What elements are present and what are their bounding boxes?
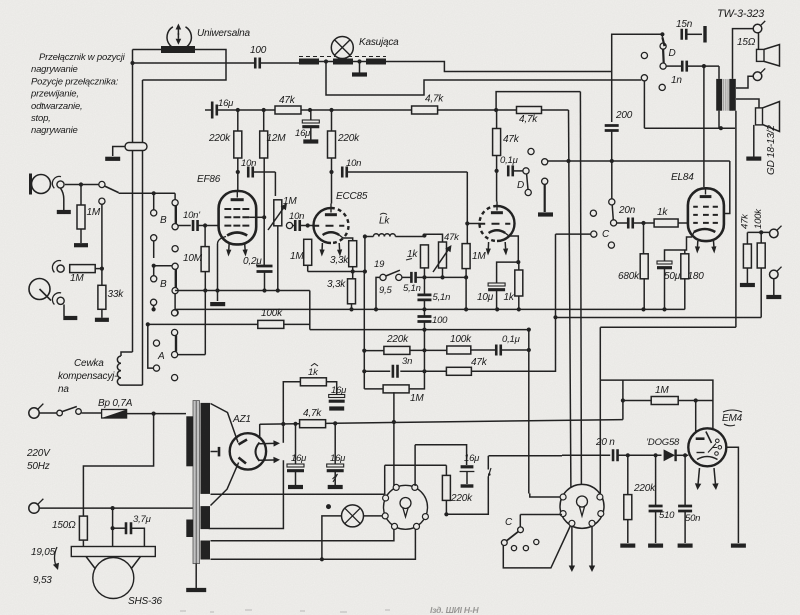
wire 10n right (254, 171, 276, 173)
wire speaker2 to ground (753, 125, 755, 157)
wire 220k motor top (445, 465, 447, 475)
wire box top line (548, 160, 730, 162)
wire junction to bracket (353, 271, 365, 273)
transformer mains right winding 3 (201, 541, 211, 560)
resistor 47k right (743, 244, 751, 268)
wire pot 47k bottom (442, 268, 444, 277)
capacitor 0,1u row (496, 345, 501, 356)
potentiometer 47k (439, 242, 447, 268)
capacitor 100 (255, 58, 260, 69)
wire C up (611, 161, 613, 199)
wire C left contacts (590, 210, 596, 216)
ground speaker (746, 157, 761, 161)
wire cap to erase head (261, 62, 300, 64)
wire 1k hat left (283, 382, 300, 424)
stray dot (326, 504, 331, 509)
wire EL84 anode (703, 66, 705, 187)
heater tap bar (218, 447, 221, 457)
wire EF86 screen down (331, 158, 333, 173)
wire 220k EM4 ground (627, 520, 629, 543)
wire left rail 2 (142, 80, 144, 143)
wire 100k to 0,1u (471, 349, 496, 351)
resistor 47k t2 anode (493, 129, 501, 156)
wire EL84 cathode net (665, 237, 693, 262)
resistor 1M gram (70, 265, 96, 273)
wire 220k up (237, 110, 239, 131)
wire primary bottom to bus (718, 111, 720, 129)
ground EF86 area (210, 302, 225, 306)
wire EM4 right side (726, 447, 738, 543)
wire coupling to pot (274, 172, 276, 196)
ground 16u screen (303, 139, 318, 143)
tube AZ1 envelope (230, 433, 266, 469)
tube EF86 cathode arc (227, 233, 247, 236)
wire C 234 line (556, 233, 591, 235)
capacitor 0,2u cathode (257, 266, 273, 272)
wire riser to rail B (496, 92, 580, 110)
resistor 1M mic (77, 205, 85, 229)
erase head winding 1 (299, 59, 319, 65)
wire B to 10n (178, 225, 191, 227)
wire pilot right to motor (364, 515, 383, 517)
switch B lower contacts (151, 235, 157, 241)
tube EL84 grids (693, 206, 718, 208)
capacitor 16u c1 (287, 464, 304, 467)
diode DOG58 (664, 449, 676, 461)
tube EL84 envelope (688, 188, 724, 241)
wire screen cap stub (310, 110, 312, 120)
wire 15n to terminal bar (687, 33, 702, 35)
resistor 100k right (757, 243, 765, 268)
junction anode coupling tap (236, 170, 240, 174)
tube EM4 arrows (698, 468, 699, 484)
wire 20n to diode (618, 454, 661, 456)
wire screen stub (249, 216, 264, 218)
tube t2 cathode (489, 230, 506, 233)
switch C arm contacts (518, 527, 524, 533)
wire 10M bottom through bus to switch A (204, 272, 206, 355)
wire head left to rail (133, 49, 162, 51)
wire x600 vertical (599, 327, 601, 494)
resistor 220k motor (442, 475, 450, 500)
wire 3,3k b to bus (351, 304, 353, 310)
wire 100k line right to drop (284, 323, 310, 325)
capacitor 5,1n shunt (417, 295, 431, 300)
wire between 4,7k (438, 109, 517, 111)
wire 12M down to screen (263, 158, 265, 266)
tube EM4 diagonal (706, 432, 712, 444)
junction riser to motor1 (392, 420, 396, 424)
wire node to pot top (424, 234, 442, 242)
resistor 220k EF86 anode (234, 131, 242, 158)
capacitor 20n EM4 (613, 449, 618, 461)
junction rail-oscillator (130, 61, 134, 65)
resistor 220k screen (328, 131, 336, 158)
wire 10M top (204, 226, 206, 247)
wire 20n to 1k (633, 222, 655, 224)
wire 3n row left lead (364, 370, 390, 372)
wire t2 cathode network (497, 236, 519, 283)
terminal out2 (770, 270, 779, 279)
resistor 10M (201, 247, 209, 272)
capacitor 50u (657, 261, 672, 264)
wire pilot left (322, 516, 342, 559)
junction column y329 (422, 328, 426, 332)
wire mains trafo ground (195, 563, 197, 588)
contact stray top (528, 148, 534, 154)
motor M1 terminals (412, 484, 418, 490)
wire rail end riser to 1M box (622, 401, 624, 420)
wire 1M left link (623, 400, 652, 402)
scan noise overlay (0, 0, 1, 1)
switch A contacts (151, 299, 157, 305)
tube EL84 anode (705, 188, 707, 194)
wire 47k right ground (746, 268, 748, 283)
wire EF86 anode up (237, 158, 239, 191)
fuse Bp 0,7A (102, 410, 127, 419)
wire 1k to grid (678, 222, 687, 224)
transformer TW secondary bar (729, 79, 736, 111)
curved arrow (55, 547, 58, 568)
wire 47k anode bottom (496, 156, 498, 202)
resistor 47k top (275, 106, 301, 114)
wire 10u to bus (496, 290, 498, 309)
capacitor 10n coupling2 (295, 220, 300, 231)
wire A bridge out (178, 354, 206, 356)
tube EM4 cathode arc (697, 457, 718, 460)
tube ECC85 t1 arrows (321, 243, 323, 250)
tube AZ1 plate bars (239, 440, 248, 445)
wire 33k ground (101, 309, 103, 318)
divider top contact (99, 198, 105, 204)
wire oscillator line y63 (133, 62, 255, 64)
capacitor 16u top-left (212, 102, 217, 119)
wire 100k bottom to box (760, 268, 762, 318)
wire erase tap to oscillator feed (326, 62, 641, 96)
wire winding link a (319, 61, 333, 63)
transformer TW core laminations (723, 79, 725, 111)
tube EM4 target cross (708, 444, 717, 453)
resistor 180 (681, 254, 689, 279)
wire 277 line to 1M vertical (424, 276, 466, 278)
speaker 2 (756, 108, 763, 125)
wire cathode junction (308, 271, 353, 273)
tube ECC85 t2 envelope (497, 206, 515, 241)
wire 15n line down to 200 cap (611, 72, 613, 123)
wire b lower to bus (174, 294, 176, 310)
tube EF86 cathode lead (218, 237, 227, 245)
wire rail to motor2 upper-left (530, 494, 561, 498)
wire riser 1M-rail (393, 392, 395, 422)
switch B upper contacts (151, 210, 157, 216)
wire 50n top (684, 455, 686, 506)
wire 50u down (664, 269, 666, 310)
resistor 1k EL84 (654, 219, 678, 227)
wire cap to bus (264, 271, 266, 290)
resistor 100k row (447, 346, 471, 354)
wire pot circle link (293, 225, 295, 227)
terminal secondary 2 (753, 72, 762, 81)
wire 3,7u right (131, 528, 144, 546)
tube EF86 anode top (236, 191, 238, 198)
switch C panel arm (507, 532, 519, 541)
transformer TW primary bar (716, 79, 722, 111)
contact below box line (542, 178, 548, 184)
capacitor 100 column (417, 317, 431, 322)
capacitor 10u (488, 283, 505, 286)
wire 200 cap down to box top (611, 131, 613, 161)
wire left rail 1 (132, 50, 134, 143)
resistor 1k hat (300, 378, 326, 386)
wire pot bottom (277, 226, 279, 291)
riser jog break (488, 468, 491, 477)
switch D2 contacts (523, 168, 529, 174)
wire 3n to 47k (400, 370, 446, 372)
wire speaker1 stem (758, 33, 760, 49)
wire Lk left down to cathode node (364, 237, 366, 272)
resistor 3,3k a (349, 241, 357, 267)
wire 180 down (684, 279, 686, 310)
tube EL84 arrows (697, 241, 699, 247)
record/play head Uniwersalna (161, 46, 195, 53)
resistor 100k bottom-left (258, 320, 284, 328)
wire EF86 cathode down to ground (217, 244, 219, 301)
wire primary top (718, 66, 720, 79)
wire M1 bottom lead a (211, 529, 394, 540)
gram terminal (57, 297, 64, 304)
wire t2 grid feed (467, 172, 479, 224)
wire AZ1 plate lead lower (211, 463, 239, 506)
ground erase head (359, 62, 361, 74)
wire out2 ground (773, 279, 775, 295)
transformer mains right winding 2 (201, 506, 211, 529)
wire 16u c1 top (295, 424, 297, 464)
wire M1 bottom lead b (211, 529, 416, 559)
wire contact ground stem (544, 184, 546, 212)
ground 16u b1 (329, 406, 344, 410)
wire 3,3k junction (352, 267, 354, 279)
tube t2 grid dashes (478, 223, 510, 225)
wire ECC85 anode up (331, 172, 333, 204)
wire 1k bottom column (423, 268, 425, 295)
wire AZ1 lower arrow to winding (209, 460, 284, 528)
wire 3,7u left (112, 508, 114, 546)
wire rail to AZ1 cathode arrow (282, 424, 284, 443)
wire 1M mic ground (80, 229, 82, 243)
wire 50n bottom (684, 511, 686, 543)
wire M1 220k line (385, 464, 447, 466)
wire rail A down (569, 110, 571, 489)
wire 5,1n wires (402, 276, 411, 278)
wire 150 down (82, 540, 84, 546)
wire x467 vert grid (466, 224, 468, 244)
wire erase right to 15n line (386, 62, 612, 72)
wire 1M to chain (95, 268, 102, 270)
potentiometer 1M (274, 200, 282, 226)
wire 1M row right up (409, 371, 424, 389)
wire AZ1 plate lead upper (211, 404, 239, 443)
wire rail x555 (555, 234, 557, 317)
resistor 33k (98, 285, 106, 309)
capacitor 3,7u (126, 522, 131, 534)
wire row bracket left (363, 272, 365, 389)
wire 1k hat right to 16u (326, 382, 336, 395)
switch C panel contacts (511, 546, 516, 551)
wire 20n left to C switch (617, 222, 629, 224)
wire 680k top (643, 223, 645, 254)
tube AZ1 output arrows (260, 442, 274, 444)
tube EL84 cathode arc (694, 229, 715, 232)
capacitor 16u screen (302, 120, 319, 123)
wire 16u motor ground (466, 472, 468, 485)
resistor 1M ECC85 grid (304, 239, 312, 265)
motor M2 terminals (560, 494, 566, 500)
wire 220k row left lead (364, 350, 384, 352)
resistor 3,3k b (348, 279, 356, 304)
wire fuse left (82, 412, 102, 414)
vertical x528 lower (528, 350, 530, 494)
wire 1M to grid (695, 401, 697, 438)
wire y317 line (556, 317, 762, 319)
resistor 1k grid stopper (420, 245, 428, 268)
mains terminal 1 (29, 408, 39, 418)
resistor 4,7k top b (517, 107, 542, 114)
wire AZ1 cathode to rail (259, 424, 261, 437)
wire Lk right to column node (395, 236, 424, 238)
wire diode to EM4 (677, 454, 689, 456)
switch D bridge (662, 37, 664, 63)
transformer mains left winding 2 (186, 520, 193, 538)
wire node to EM4 riser (446, 477, 488, 515)
wire EM4 line left stub (562, 454, 610, 456)
wire 1k to bus (518, 262, 520, 270)
wire switch to B contacts (119, 192, 176, 194)
wire 47k anode top (496, 110, 498, 129)
wire 220k-100k (410, 349, 447, 351)
wire oval to ground (113, 147, 125, 157)
wire rail B down (580, 92, 581, 485)
capacitor 3n (393, 365, 398, 378)
wire 220k EM4 top (627, 455, 629, 494)
wire 1M grid bottom (307, 265, 309, 271)
tube EF86 heater arrows (228, 243, 230, 250)
wire screen cap to ground (310, 127, 312, 140)
junction switch A feed (146, 322, 150, 326)
wire secondary tap (736, 76, 753, 88)
wire 15n riser (612, 34, 663, 71)
junction column bus (422, 307, 426, 311)
capacitor 0,1u t2 (508, 165, 513, 176)
capacitor 200 (605, 126, 619, 131)
motor SHS-36 mount bar (71, 547, 155, 557)
coil Cewka kompensacyjna (121, 352, 133, 356)
wire 0,1u to D2 switch (514, 170, 524, 172)
wire secondary to speaker2 (736, 99, 759, 108)
motor M1 body (384, 485, 428, 529)
wire A feed (148, 324, 154, 368)
wire 10n3 right (348, 171, 468, 173)
coil Lk (365, 236, 374, 238)
wire 4,7k-b right to rail (542, 109, 569, 111)
wire 16u c2 ground (334, 472, 336, 486)
terminal 15ohm (753, 24, 762, 33)
resistor 1M EM4 (651, 397, 678, 405)
capacitor 20n EL84 (628, 218, 633, 229)
tube EM4 envelope (688, 428, 726, 466)
wire y327 line (600, 326, 736, 328)
tube AZ1 filament crescent (256, 443, 260, 462)
resistor 4,7k B (300, 420, 326, 428)
wire 16u c2 top (334, 423, 336, 464)
mic terminal (57, 181, 64, 188)
junction erase center tap (324, 59, 328, 63)
B+ rail long (260, 420, 623, 425)
wire mains 1 (40, 412, 57, 414)
resistor 1M t2 grid (462, 244, 470, 269)
resistor 47k row (446, 367, 471, 375)
wire EL84 grid feed (724, 161, 730, 214)
resistor 220k row (384, 346, 410, 354)
mains terminal 2 (29, 503, 39, 513)
wire 47k right up (471, 317, 555, 371)
wire to 20n EM4 (489, 455, 563, 457)
wire 16u stub (205, 109, 211, 111)
terminal bar (703, 26, 706, 43)
wire 47k right (301, 109, 412, 111)
bus ground y290 (175, 290, 310, 292)
resistor 220k EM4 (624, 495, 632, 520)
wire B feed (174, 193, 176, 199)
resistor 150ohm (79, 516, 87, 540)
wire 0,1u to vert (502, 349, 529, 351)
speaker 1 (757, 49, 765, 61)
switch D contacts (660, 43, 666, 49)
input switch arm (99, 181, 105, 187)
resistor 4,7k top a (412, 106, 438, 114)
junction 15n node (660, 32, 664, 36)
capacitor 5,1n series (411, 272, 415, 283)
wire 1M EM4 right (678, 400, 713, 402)
wire gram terminal down (63, 305, 65, 317)
wire head right loop (143, 50, 227, 81)
tube ECC85 t1 cathode (323, 232, 340, 235)
wire 510 bottom (655, 511, 657, 543)
terminal out1 (770, 229, 779, 238)
wire 220k screen top (331, 110, 333, 131)
wire 510 top (655, 455, 657, 506)
wire 16u c1 ground (295, 472, 297, 486)
transformer mains right winding 1 (201, 403, 211, 494)
junction 1k-hat riser (281, 422, 285, 426)
resistor 1M row (383, 385, 409, 393)
microphone symbol (32, 175, 51, 194)
bus y309 (175, 308, 685, 310)
tube ECC85 t1 grid dashes (312, 225, 344, 227)
capacitor 1n (682, 61, 687, 72)
tube t2 anode (496, 202, 498, 211)
wire M1 feed b (415, 445, 467, 486)
connector oval (125, 143, 147, 151)
tube EF86 grid dashes (224, 208, 249, 210)
capacitor 10n input (193, 220, 198, 231)
wire bus y128 (644, 127, 735, 129)
wire 10n to EF86 grid (198, 225, 217, 227)
erase head winding 3 (366, 59, 386, 65)
wire 100k top (760, 232, 762, 243)
tube t2 arrows (487, 242, 489, 249)
erase head winding 2 (333, 59, 353, 65)
motor M2 body (560, 484, 604, 528)
